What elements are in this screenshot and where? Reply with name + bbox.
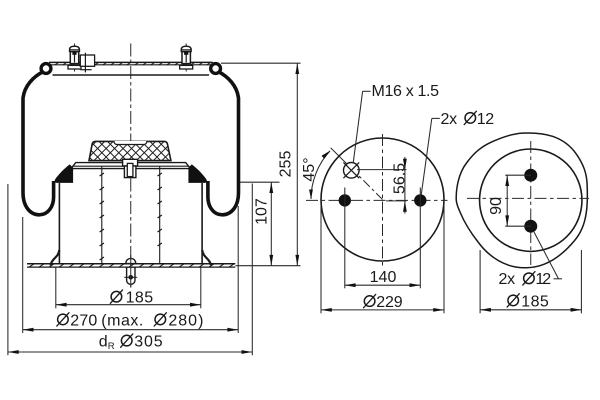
dim line 107 — [270, 182, 272, 266]
horizontal centerline — [306, 199, 448, 201]
svg-text:(max.: (max. — [101, 312, 143, 329]
piston top plate — [71, 163, 191, 169]
stud bolt 2 — [180, 44, 193, 72]
svg-text:12: 12 — [477, 111, 494, 128]
svg-text:2x: 2x — [441, 111, 458, 128]
dim line 255 — [296, 63, 298, 266]
svg-text:185: 185 — [126, 290, 154, 307]
56.5 reference lines — [357, 169, 407, 171]
air fitting bracket next to bolt 1 — [80, 53, 94, 73]
bumper top notch — [114, 141, 147, 145]
45deg arc — [311, 151, 330, 199]
M16 x 1.5 label + leader — [363, 90, 371, 92]
svg-text:R: R — [108, 341, 115, 352]
extension lines 270 — [22, 217, 24, 333]
2x Ø12 label + leader (top view) — [432, 117, 440, 119]
svg-text:270: 270 — [70, 312, 97, 329]
dim line 90 — [506, 175, 508, 226]
svg-text:M16 x 1.5: M16 x 1.5 — [372, 83, 440, 100]
center line (side view vertical axis) — [130, 44, 132, 288]
svg-text:305: 305 — [134, 334, 163, 351]
extension lines Ø185 — [479, 250, 481, 313]
2x Ø12 label + leader (bottom view) — [534, 232, 559, 279]
bottom reference line (255/107) — [236, 265, 301, 267]
stud hole right (filled) — [414, 194, 426, 206]
bellows outer wall left — [23, 71, 54, 215]
piston rib right — [158, 167, 162, 264]
90 reference lines — [505, 174, 531, 176]
stud hole left (filled) — [339, 194, 351, 206]
piston bottom circle — [480, 149, 582, 251]
svg-text:255: 255 — [278, 151, 295, 178]
svg-text:280): 280) — [168, 312, 203, 329]
dim line Ø185 (side) — [56, 304, 201, 306]
svg-text:140: 140 — [370, 269, 397, 286]
extension lines Ø229 — [320, 204, 322, 313]
piston skirt outline (irregular blob) — [456, 133, 587, 268]
svg-text:56.5: 56.5 — [391, 163, 408, 194]
M16 air fitting symbol — [344, 163, 360, 179]
piston skirt left — [58, 183, 60, 264]
45 deg hole axis (dashed radial) — [352, 169, 383, 200]
hole top (filled) — [524, 169, 537, 182]
horizontal centerline — [467, 197, 589, 199]
vertical centerline — [382, 134, 384, 267]
top bead plate with hatching — [49, 61, 213, 63]
piston skirt right — [201, 183, 203, 264]
svg-text:90: 90 — [488, 197, 505, 215]
bottom plate with hatching — [27, 263, 235, 265]
svg-text:45°: 45° — [301, 157, 318, 181]
svg-text:107: 107 — [254, 198, 271, 225]
piston center boss — [123, 159, 138, 166]
extension lines d_R 305 — [7, 184, 9, 355]
top plate lower rubber line — [53, 74, 210, 76]
rolled bead left — [41, 64, 51, 74]
svg-text:229: 229 — [376, 294, 402, 311]
extension lines 185 — [55, 268, 57, 309]
dim line Ø270 (max Ø280) — [23, 329, 239, 331]
rolled bead right — [211, 64, 221, 74]
extension lines 140 — [344, 188, 346, 289]
bottom stud — [124, 255, 137, 288]
stud bolt 1 — [68, 44, 81, 72]
dim line Ø185 — [480, 309, 581, 311]
rubber pinch left (filled) — [55, 164, 73, 183]
bellows outer wall right — [208, 71, 239, 215]
dim line d_R Ø305 — [8, 351, 252, 353]
56.5 dim line (arrows outside) — [404, 157, 406, 214]
reference line 107 top — [240, 181, 280, 183]
rubber pinch right (filled) — [188, 164, 206, 183]
svg-text:185: 185 — [521, 293, 549, 310]
top reference line (255) — [221, 62, 301, 64]
svg-text:d: d — [99, 334, 108, 351]
svg-text:2x: 2x — [499, 271, 516, 288]
bead plate circle — [321, 138, 444, 261]
svg-text:12: 12 — [535, 271, 551, 288]
rubber bumper (cross-hatched) — [89, 141, 171, 160]
dim line Ø229 — [321, 309, 444, 311]
piston rib left — [100, 167, 104, 264]
hole bottom (filled) — [524, 220, 537, 233]
vertical centerline — [530, 141, 532, 265]
dim line 140 — [345, 284, 421, 286]
